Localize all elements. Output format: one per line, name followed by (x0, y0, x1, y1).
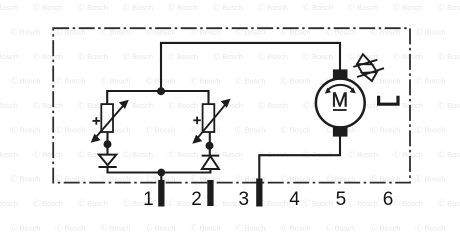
plus label (right) (193, 117, 201, 125)
valve pictogram (tilted hourglass) (353, 54, 384, 81)
mechanical coupling bracket (377, 96, 400, 106)
svg-text:5: 5 (336, 189, 347, 210)
terminal pin 1 (158, 180, 164, 207)
svg-text:M: M (331, 90, 348, 112)
variable resistor (left): double arrow (92, 101, 127, 141)
diode (left), cathode down (99, 155, 117, 167)
wire: stub from junction to terminal 1 (160, 173, 162, 183)
variable resistor (right): double arrow (194, 100, 229, 142)
wire: right resistor bottom to right diode (209, 132, 211, 156)
svg-text:2: 2 (191, 189, 202, 210)
svg-text:6: 6 (383, 189, 394, 210)
terminal pin 2 (207, 180, 213, 206)
variable resistor (left): body (101, 104, 113, 132)
diode (right), cathode up (202, 156, 220, 169)
svg-text:1: 1 (143, 189, 154, 210)
enclosure border (dash-dot) (53, 28, 410, 182)
motor M: top brush block (333, 69, 348, 79)
wire: bottom bus from left diode to right diode (108, 167, 211, 173)
variable resistor (right): body (203, 104, 215, 132)
motor M: letter M with underline (331, 90, 348, 112)
wire: motor bottom to terminal 3 (259, 133, 340, 181)
junction node A (top) (157, 87, 165, 95)
wire: horizontal between resistor tops (107, 91, 208, 105)
svg-text:3: 3 (239, 189, 250, 210)
motor M: stator circle (316, 79, 365, 128)
motor M: bidirectional rotation arc arrow (325, 85, 356, 94)
motor M: bottom brush block (333, 127, 348, 137)
junction dot below left resistor (104, 140, 112, 148)
junction dot above terminal 1 (157, 169, 165, 177)
wire: top bus from node A up-right to motor (161, 43, 340, 91)
junction dot below right resistor (206, 142, 214, 150)
svg-text:4: 4 (289, 189, 300, 210)
plus label (left) (93, 117, 101, 125)
terminal pin 3 (256, 179, 262, 207)
wire: left resistor bottom to left diode (106, 132, 108, 154)
